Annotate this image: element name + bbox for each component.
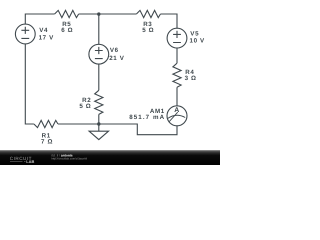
- ground: [89, 124, 108, 140]
- svg-text:17 V: 17 V: [39, 35, 55, 42]
- svg-text:V6: V6: [110, 47, 119, 54]
- svg-text:10 V: 10 V: [190, 38, 206, 45]
- resistor R1: [34, 120, 58, 127]
- wire node to V6: [98, 14, 100, 44]
- voltage source V5: [167, 28, 187, 48]
- svg-text:V4: V4: [39, 27, 48, 34]
- node A junction dot: [97, 12, 100, 15]
- svg-text:http://circuitlab.com/c/3aax44: http://circuitlab.com/c/3aax44: [51, 158, 87, 161]
- resistor R2: [95, 90, 103, 114]
- svg-text:6 Ω: 6 Ω: [61, 27, 73, 34]
- svg-text:5 Ω: 5 Ω: [142, 27, 154, 34]
- wire V6 to R2: [98, 64, 100, 90]
- wire R2 to bottom node: [98, 114, 100, 124]
- svg-text:851.7 mA: 851.7 mA: [129, 114, 165, 121]
- svg-text:5 Ω: 5 Ω: [79, 103, 91, 110]
- svg-text:7 Ω: 7 Ω: [41, 139, 53, 146]
- resistor R4: [173, 63, 181, 87]
- wire R1 to V4 bottom: [25, 44, 34, 124]
- ammeter AM1: [167, 106, 187, 126]
- wire top-left from V4 to R5: [25, 14, 54, 24]
- svg-text:LAB: LAB: [26, 159, 34, 164]
- voltage source V4: [15, 24, 35, 44]
- voltage source V6: [89, 44, 109, 64]
- svg-text:21 V: 21 V: [109, 55, 125, 62]
- wire R5 to R3 through node: [79, 13, 137, 15]
- resistor R5: [55, 10, 79, 17]
- svg-text:3 Ω: 3 Ω: [185, 75, 197, 82]
- wire AM1 bottom step: [58, 124, 177, 135]
- svg-text:A: A: [174, 107, 179, 114]
- resistor R3: [136, 10, 160, 17]
- wire V5 to R4: [176, 48, 178, 63]
- wire R4 to AM1: [176, 87, 178, 106]
- wire R3 to V5: [160, 14, 177, 28]
- node B junction dot: [97, 122, 100, 125]
- svg-text:V5: V5: [190, 30, 199, 37]
